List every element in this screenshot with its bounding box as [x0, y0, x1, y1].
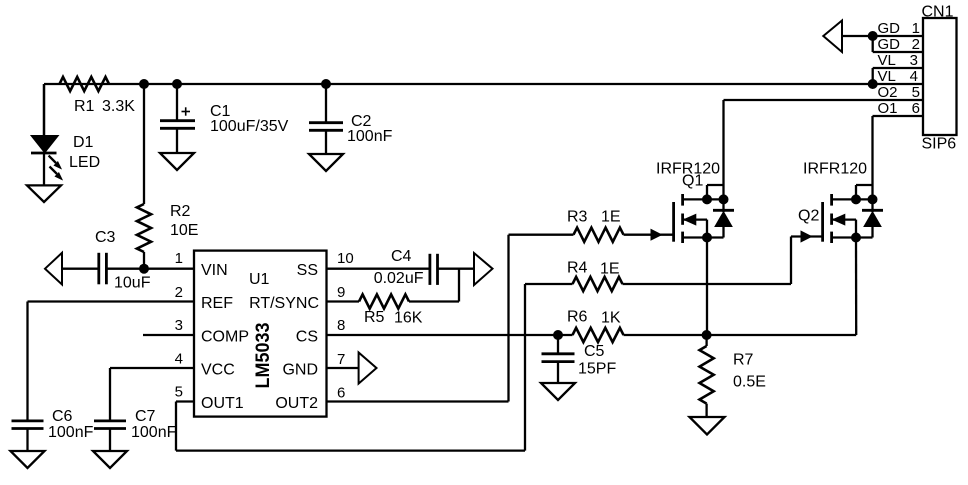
label CN1 pin5 — [878, 84, 921, 101]
capacitor C3 — [99, 253, 107, 284]
wire OUT1 riser — [524, 284, 526, 451]
label R7 — [733, 352, 766, 391]
svg-text:O2: O2 — [878, 84, 898, 101]
wire pin4 VCC — [110, 367, 194, 369]
label CN1 pin1 — [878, 20, 921, 37]
label C7 — [131, 408, 177, 441]
svg-text:REF: REF — [201, 295, 233, 312]
wire Q2 source down — [855, 238, 858, 336]
diode Q2 body — [862, 199, 883, 237]
resistor R7 — [700, 346, 714, 404]
connector CN1 body — [923, 18, 957, 135]
pin number 10 — [337, 250, 354, 267]
wire R2 bottom — [143, 252, 145, 269]
label C5 — [578, 343, 616, 378]
op-amp U1 LM5033 body — [194, 251, 327, 417]
svg-text:SS: SS — [297, 262, 318, 279]
ground under C2 — [309, 154, 343, 171]
svg-text:15PF: 15PF — [578, 361, 616, 378]
junction CS-C5 — [553, 330, 563, 340]
label SIP6 — [922, 136, 957, 153]
svg-text:2: 2 — [912, 36, 920, 53]
port arrow SS right — [474, 253, 493, 285]
wire OUT1 bottom run — [176, 449, 525, 451]
svg-text:C6: C6 — [52, 408, 73, 425]
label CN1 pin4 — [878, 68, 919, 85]
junction rail-R2 — [139, 79, 149, 89]
ground under R7 — [690, 417, 725, 435]
ground under C7 — [93, 451, 127, 468]
label R6 — [567, 309, 621, 327]
svg-text:CN1: CN1 — [922, 4, 954, 21]
svg-text:1E: 1E — [601, 209, 621, 226]
resistor R4 — [573, 277, 623, 291]
resistor R5 — [359, 294, 409, 308]
svg-text:3: 3 — [175, 317, 183, 334]
wire pin3 COMP stub — [143, 334, 194, 336]
svg-text:R7: R7 — [733, 352, 754, 369]
svg-text:GND: GND — [282, 362, 318, 379]
svg-text:8: 8 — [337, 317, 345, 334]
svg-text:R4: R4 — [567, 260, 588, 277]
wire C2 top — [325, 84, 327, 122]
svg-text:7: 7 — [337, 351, 345, 368]
svg-text:0.02uF: 0.02uF — [374, 270, 424, 287]
capacitor C7 — [94, 421, 126, 451]
pin number 7 — [337, 351, 345, 368]
svg-text:3.3K: 3.3K — [102, 98, 135, 115]
svg-text:COMP: COMP — [201, 329, 249, 346]
label C2 — [347, 113, 393, 145]
pin number 3 — [175, 317, 183, 334]
svg-text:VL: VL — [878, 68, 896, 85]
wire R5 to C4 node — [409, 300, 459, 302]
svg-text:10: 10 — [337, 250, 354, 267]
svg-text:VIN: VIN — [201, 262, 228, 279]
svg-text:LED: LED — [69, 154, 100, 171]
svg-text:4: 4 — [910, 68, 918, 85]
svg-text:OUT2: OUT2 — [275, 395, 318, 412]
svg-text:D1: D1 — [73, 134, 94, 151]
svg-text:5: 5 — [912, 84, 920, 101]
wire CN1 pin3 VL — [873, 68, 923, 84]
svg-text:100nF: 100nF — [131, 424, 177, 441]
diode Q1 body — [713, 199, 734, 237]
svg-text:C5: C5 — [584, 343, 605, 360]
svg-text:Q2: Q2 — [798, 208, 819, 225]
junction GD tie — [868, 31, 878, 41]
wire R4 to Q2 gate corner — [623, 237, 792, 285]
svg-text:5: 5 — [175, 384, 183, 401]
pin OUT1 label — [201, 395, 244, 412]
wire pin5 OUT1 — [176, 400, 194, 402]
svg-text:R2: R2 — [170, 203, 191, 220]
svg-text:10E: 10E — [170, 222, 198, 239]
svg-text:100uF/35V: 100uF/35V — [210, 118, 289, 135]
wire R7 bottom — [705, 404, 707, 417]
svg-text:1: 1 — [175, 250, 183, 267]
label R4 — [567, 260, 620, 278]
ground under D1 — [27, 185, 61, 202]
capacitor C2 — [309, 123, 343, 154]
svg-text:R1: R1 — [74, 98, 95, 115]
resistor R3 — [574, 228, 624, 242]
svg-text:C3: C3 — [95, 229, 116, 246]
svg-text:3: 3 — [910, 52, 918, 69]
svg-text:RT/SYNC: RT/SYNC — [249, 295, 319, 312]
wire C4 node down to R5 — [458, 269, 460, 302]
pin REF label — [201, 295, 233, 312]
junction rail-C2 — [321, 79, 331, 89]
svg-text:U1: U1 — [249, 271, 270, 288]
label CN1 pin6 — [878, 100, 921, 117]
pin VIN label — [201, 262, 228, 279]
wire OUT2 riser — [507, 235, 509, 402]
resistor R6 — [573, 328, 624, 342]
wire R2 top — [143, 84, 145, 204]
svg-text:0.5E: 0.5E — [733, 374, 766, 391]
wire pin5 OUT1 drop — [175, 402, 177, 451]
junction sense node R7 — [702, 330, 712, 340]
pin VCC label — [201, 362, 235, 379]
svg-text:100nF: 100nF — [347, 128, 393, 145]
wire Q1 source down — [706, 238, 708, 336]
label LM5033 — [253, 323, 274, 389]
svg-text:1E: 1E — [600, 261, 620, 278]
ground under C5 — [541, 383, 575, 400]
label R2 — [170, 203, 198, 239]
svg-text:C7: C7 — [135, 408, 156, 425]
pin number 8 — [337, 317, 345, 334]
label C1 — [210, 103, 289, 135]
wire VCC down to C7 — [109, 368, 111, 420]
wire C5 top — [557, 335, 559, 353]
svg-text:16K: 16K — [394, 310, 423, 327]
capacitor C5 — [542, 354, 575, 383]
wire top rail VIN node — [44, 83, 923, 85]
svg-text:O1: O1 — [878, 100, 898, 117]
pin number 2 — [175, 284, 183, 301]
svg-text:OUT1: OUT1 — [201, 395, 244, 412]
svg-text:IRFR120: IRFR120 — [803, 161, 867, 178]
transistor Q2 IRFR120 — [823, 185, 878, 243]
wire R7 top — [705, 335, 707, 346]
svg-text:CS: CS — [296, 329, 318, 346]
wire C4 to arrow — [438, 268, 475, 270]
pin number 5 — [175, 384, 183, 401]
ground under C1 — [160, 153, 194, 170]
port arrow GND right — [359, 353, 377, 384]
svg-text:2: 2 — [175, 284, 183, 301]
transistor Q1 IRFR120 — [674, 185, 729, 243]
svg-text:4: 4 — [175, 351, 183, 368]
wire R3 to Q1 gate — [624, 229, 674, 240]
wire D1 anode drop — [43, 84, 45, 136]
wire pin7 GND — [327, 367, 359, 369]
label C4 — [374, 248, 424, 287]
label R5 — [364, 309, 423, 327]
wire arrow to C3 — [62, 268, 98, 270]
wire REF down to C6 — [26, 302, 28, 420]
wire pin6 OUT2 — [327, 400, 509, 402]
junction VIN node — [139, 264, 149, 274]
svg-text:100nF: 100nF — [48, 424, 94, 441]
pin SS label — [297, 262, 318, 279]
junction VL tie — [868, 79, 878, 89]
svg-text:6: 6 — [912, 100, 920, 117]
wire C3 to VIN node — [106, 268, 144, 270]
label Q1 — [656, 161, 720, 190]
wire CN1 pin2 GD — [873, 36, 923, 52]
wire Q2 gate lead — [791, 231, 823, 242]
pin number 4 — [175, 351, 183, 368]
svg-text:R6: R6 — [567, 309, 588, 326]
wire pin10 SS — [327, 268, 430, 270]
svg-text:C4: C4 — [391, 248, 412, 265]
wire R6 to sense node — [624, 334, 857, 336]
capacitor C4 — [430, 254, 438, 285]
ground under C6 — [11, 451, 45, 468]
svg-text:LM5033: LM5033 — [253, 323, 274, 389]
label C6 — [48, 408, 94, 441]
junction rail-C1 — [172, 79, 182, 89]
label CN1 pin3 — [878, 52, 919, 69]
svg-text:6: 6 — [337, 385, 345, 402]
label R3 — [567, 209, 621, 226]
svg-text:VCC: VCC — [201, 362, 235, 379]
label CN1 — [922, 4, 954, 21]
wire CN1 pin6 O1 — [873, 115, 924, 117]
svg-text:R3: R3 — [567, 209, 588, 226]
port arrow GD left — [823, 21, 842, 53]
pin number 9 — [337, 284, 345, 301]
wire C1 top — [176, 84, 178, 120]
pin CS label — [296, 329, 318, 346]
svg-text:1K: 1K — [601, 310, 621, 327]
label U1 — [249, 271, 270, 288]
pin COMP label — [201, 329, 249, 346]
wire pin8 CS — [327, 334, 573, 336]
label Q2 — [798, 161, 867, 225]
pin number 1 — [175, 250, 183, 267]
svg-text:9: 9 — [337, 284, 345, 301]
svg-text:R5: R5 — [364, 309, 385, 326]
wire CN1 pin5 O2 — [724, 99, 924, 101]
wire riser to R3 — [509, 234, 574, 236]
pin GND label — [282, 362, 318, 379]
label D1 — [69, 134, 100, 171]
resistor R1 — [60, 77, 110, 91]
svg-text:SIP6: SIP6 — [922, 136, 957, 153]
label R1 value — [74, 98, 135, 115]
capacitor C6 — [12, 421, 44, 451]
pin OUT2 label — [275, 395, 318, 412]
label C3 — [95, 229, 151, 292]
wire pin2 REF — [28, 300, 195, 302]
wire Q2 drain riser — [871, 116, 873, 199]
svg-text:GD: GD — [878, 36, 901, 53]
pin number 6 — [337, 385, 345, 402]
capacitor C1 — [160, 107, 195, 153]
wire riser to R4 — [525, 283, 573, 285]
label CN1 pin2 — [878, 36, 921, 53]
svg-text:10uF: 10uF — [114, 275, 151, 292]
svg-text:GD: GD — [878, 20, 901, 37]
wire CN1 pin1 GD — [842, 35, 923, 37]
svg-text:VL: VL — [878, 52, 896, 69]
svg-text:Q1: Q1 — [682, 173, 703, 190]
resistor R2 — [137, 204, 151, 252]
svg-text:1: 1 — [912, 20, 920, 37]
diode D1 LED — [31, 84, 62, 185]
pin RT/SYNC label — [249, 295, 319, 312]
wire pin1 VIN — [144, 268, 194, 270]
wire Q1 drain riser — [722, 100, 724, 199]
port arrow input left — [45, 253, 62, 285]
wire pin9 RT/SYNC — [327, 300, 360, 302]
